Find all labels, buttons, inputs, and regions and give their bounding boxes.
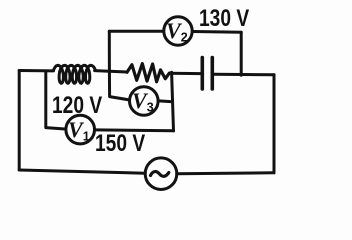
capacitor C1 right plate bbox=[211, 58, 215, 90]
wire V1 to node B bbox=[95, 128, 173, 132]
wire top loop left segment bbox=[109, 30, 162, 33]
capacitor C1 left plate bbox=[201, 58, 205, 90]
AC source bbox=[145, 158, 177, 190]
resistor R1 bbox=[127, 64, 169, 82]
label 120 V bbox=[52, 94, 102, 118]
wire resistor to capacitor bbox=[169, 72, 201, 75]
wire left riser of V2 loop (node A up) bbox=[108, 31, 111, 71]
wire coil to resistor bbox=[95, 71, 127, 72]
wire bottom right segment bbox=[177, 171, 274, 175]
voltmeter V3 bbox=[130, 87, 159, 116]
wire node A down to V3 bbox=[109, 71, 128, 99]
voltmeter V1 label bbox=[68, 119, 90, 143]
wire left vertical bbox=[18, 71, 21, 171]
inductor L1 bbox=[53, 65, 95, 83]
wire main top-left segment bbox=[19, 69, 53, 72]
voltmeter V2 bbox=[164, 17, 192, 45]
label 130 V bbox=[199, 7, 249, 31]
voltmeter V1 bbox=[66, 115, 95, 144]
wire bottom left segment bbox=[19, 170, 145, 173]
wire capacitor to right corner bbox=[214, 73, 274, 77]
wire node D down to V1 bbox=[46, 71, 65, 129]
wire top loop right segment bbox=[194, 30, 242, 34]
voltmeter V2 label bbox=[166, 20, 188, 44]
wire right vertical bbox=[273, 75, 276, 173]
wire V3 to node B vertical bbox=[159, 99, 173, 103]
label 150 V bbox=[95, 132, 145, 156]
wire node B vertical (resistor right to V1 wire) bbox=[172, 72, 174, 131]
wire right riser of V2 loop (node C up) bbox=[240, 32, 243, 75]
voltmeter V3 label bbox=[132, 90, 154, 114]
AC source sine symbol bbox=[151, 172, 169, 177]
